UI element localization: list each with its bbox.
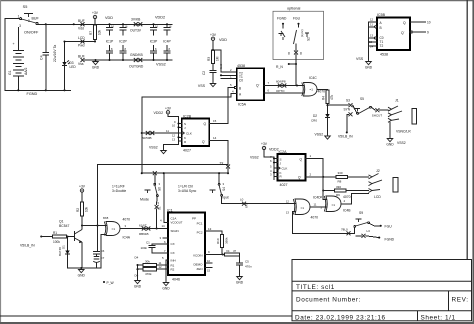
svg-text:14: 14 xyxy=(370,45,374,49)
wire y164 branch xyxy=(98,164,229,166)
svg-text:D1: D1 xyxy=(62,245,66,249)
wire IC4C out to R4 xyxy=(317,88,328,91)
switch S0 Mode xyxy=(154,175,156,183)
terminal P_W xyxy=(103,281,105,283)
IC4B output wire xyxy=(341,203,352,205)
IC2B bus to VDD2 xyxy=(168,114,179,122)
jumper on y173 xyxy=(153,171,157,175)
svg-text:11: 11 xyxy=(314,203,317,207)
supply +3V at R2 xyxy=(80,189,83,192)
svg-text:VSNC/LR: VSNC/LR xyxy=(396,130,411,134)
jumper SHCUT xyxy=(371,107,375,110)
svg-text:SIGIN: SIGIN xyxy=(171,229,179,233)
svg-text:4027: 4027 xyxy=(280,183,288,187)
svg-text:3=U5A Sync: 3=U5A Sync xyxy=(178,189,197,193)
svg-text:8: 8 xyxy=(300,52,302,56)
svg-text:8X8: 8X8 xyxy=(245,202,249,208)
svg-text:470k: 470k xyxy=(145,272,152,276)
svg-text:12: 12 xyxy=(286,200,290,204)
svg-text:13: 13 xyxy=(208,227,212,231)
power bypass IC3P xyxy=(153,24,155,27)
svg-text:GND: GND xyxy=(134,284,142,288)
svg-text:VSS2: VSS2 xyxy=(149,146,158,150)
svg-text:4070: 4070 xyxy=(343,195,351,199)
svg-text:CX: CX xyxy=(171,251,175,255)
svg-text:Sheet: 1/1: Sheet: 1/1 xyxy=(421,314,456,321)
svg-text:X4: X4 xyxy=(226,249,230,253)
svg-text:4070: 4070 xyxy=(123,218,131,222)
diode D1 xyxy=(67,237,69,251)
terminal FGU xyxy=(380,225,382,227)
svg-text:S2: S2 xyxy=(307,37,311,41)
IC2B CLK wire with jumper 50/50B xyxy=(142,132,182,134)
svg-text:S3: S3 xyxy=(346,99,350,103)
gnd arrow bottom-left xyxy=(78,268,84,273)
svg-text:GND: GND xyxy=(78,273,86,277)
wire IC4B out to J2 lower xyxy=(352,194,369,204)
svg-text:IC4C: IC4C xyxy=(309,76,317,80)
terminal V5/LB_IN xyxy=(40,235,42,237)
wire D2 node to SYN jumpers xyxy=(328,104,349,106)
svg-text:8: 8 xyxy=(288,52,290,56)
svg-text:VSS2: VSS2 xyxy=(250,156,259,160)
wire R1 to base xyxy=(66,236,74,238)
svg-text:330: 330 xyxy=(338,171,343,175)
svg-text:VCOOUT: VCOOUT xyxy=(171,220,183,224)
XOR gate IC4B xyxy=(326,196,341,212)
svg-text:4046: 4046 xyxy=(172,278,180,282)
resistor R8 330 xyxy=(336,175,348,178)
svg-text:D6: D6 xyxy=(135,274,139,278)
gnd under D2 xyxy=(327,118,329,135)
svg-text:4027: 4027 xyxy=(183,149,191,153)
svg-text:+3V: +3V xyxy=(92,11,99,15)
wire bottom branch y233 xyxy=(292,232,354,234)
svg-text:GND: GND xyxy=(162,286,170,290)
svg-text:15: 15 xyxy=(207,269,211,273)
svg-text:J2: J2 xyxy=(376,169,380,173)
svg-text:2: 2 xyxy=(28,19,30,23)
IC4B input wires xyxy=(323,199,326,201)
svg-text:14: 14 xyxy=(213,136,217,140)
svg-text:=1: =1 xyxy=(112,227,116,231)
bottom gnd wire xyxy=(68,267,102,269)
svg-text:=1: =1 xyxy=(332,203,336,207)
svg-text:BUF: BUF xyxy=(78,55,85,59)
IC2B bus to gnd xyxy=(164,145,179,150)
svg-text:4070: 4070 xyxy=(318,90,326,94)
svg-text:13: 13 xyxy=(370,34,374,38)
jumper on S4 wire xyxy=(242,202,246,206)
svg-text:B: B xyxy=(239,86,241,90)
svg-text:22u/16V Ta: 22u/16V Ta xyxy=(53,45,57,62)
wire optional box to R_N and IC4C xyxy=(295,55,297,86)
power bypass IC4P xyxy=(166,24,168,27)
svg-text:BC547: BC547 xyxy=(59,224,69,228)
svg-text:L3: L3 xyxy=(367,229,371,233)
svg-text:IC5B: IC5B xyxy=(377,13,386,17)
svg-text:FGND: FGND xyxy=(385,237,395,241)
svg-text:CLK: CLK xyxy=(282,166,288,170)
jumper 2X xyxy=(226,165,230,169)
svg-text:10: 10 xyxy=(207,259,211,263)
IC2A Qbar pin2 wire xyxy=(306,176,337,178)
svg-text:R4: R4 xyxy=(322,96,326,100)
svg-text:REV:: REV: xyxy=(452,297,469,304)
svg-text:CLK: CLK xyxy=(186,131,192,135)
svg-text:LED: LED xyxy=(70,65,77,69)
svg-text:ZEN: ZEN xyxy=(197,267,203,271)
svg-text:Vss: Vss xyxy=(78,62,84,66)
svg-text:Q´: Q´ xyxy=(256,84,260,88)
svg-text:3: 3 xyxy=(19,24,21,28)
IC1 ZEN pin15 stub xyxy=(205,266,212,268)
svg-text:IC2P: IC2P xyxy=(119,40,127,44)
svg-text:VCOIN: VCOIN xyxy=(193,253,203,257)
resistor R2 xyxy=(80,202,83,216)
frame right border xyxy=(466,0,468,260)
svg-text:V5/LB_IN: V5/LB_IN xyxy=(20,244,35,248)
svg-text:RB91B: RB91B xyxy=(139,232,149,236)
svg-text:IC5A: IC5A xyxy=(238,103,247,107)
svg-text:IC4P: IC4P xyxy=(163,40,171,44)
svg-text:VSS: VSS xyxy=(198,84,206,88)
wire R4 to D2 node xyxy=(327,104,329,115)
svg-text:IC4B: IC4B xyxy=(343,208,351,212)
svg-text:12: 12 xyxy=(159,265,163,269)
svg-text:PC1: PC1 xyxy=(197,221,203,225)
title block xyxy=(292,260,472,321)
IC5B pin13 wire xyxy=(375,37,377,39)
IC2B Q pin15 wire xyxy=(209,123,228,125)
capacitor C2 xyxy=(212,64,214,71)
svg-text:11: 11 xyxy=(166,129,169,133)
svg-text:S1: S1 xyxy=(158,206,162,210)
svg-text:+3V: +3V xyxy=(165,106,172,110)
svg-text:12: 12 xyxy=(370,18,374,22)
svg-text:FGND: FGND xyxy=(27,92,38,96)
svg-text:Q´: Q´ xyxy=(401,31,405,35)
svg-text:Date: 23.02.1999 23:21:16: Date: 23.02.1999 23:21:16 xyxy=(295,314,386,321)
long loop wire xyxy=(142,94,231,174)
svg-text:Q: Q xyxy=(403,21,406,25)
wires R3/C2 to IC5A timing pins xyxy=(213,50,237,72)
wire switch output to VDD node xyxy=(38,23,95,25)
svg-text:D2: D2 xyxy=(313,114,317,118)
wire R10 to VCOIN node xyxy=(221,248,223,255)
gnd under C5 xyxy=(237,275,243,280)
supply +3V VDD left xyxy=(93,15,96,18)
svg-text:FGND: FGND xyxy=(277,17,287,21)
supply VDD2 at IC2B xyxy=(166,111,169,114)
svg-text:VSS2: VSS2 xyxy=(397,141,406,145)
IC1 pin4 wire from y173 xyxy=(164,173,168,222)
IC1 INH pin5 to gnd xyxy=(166,260,168,281)
svg-text:100k: 100k xyxy=(53,240,60,244)
jumper SYN upper xyxy=(349,103,353,107)
IC5A pin7 output Q wire xyxy=(264,85,304,87)
svg-text:S4: S4 xyxy=(222,187,226,191)
svg-text:Vdd: Vdd xyxy=(78,27,84,31)
svg-text:D4: D4 xyxy=(135,256,139,260)
resistor R3 xyxy=(211,50,214,64)
svg-text:R8: R8 xyxy=(338,180,342,184)
svg-text:9: 9 xyxy=(427,31,429,35)
IC5B pin15 wire xyxy=(369,41,378,43)
wire switch to left rail xyxy=(5,19,20,91)
svg-text:15: 15 xyxy=(213,119,217,123)
svg-text:BUF: BUF xyxy=(32,17,40,21)
svg-text:BUF: BUF xyxy=(78,19,85,23)
svg-text:8X8: 8X8 xyxy=(103,216,109,220)
svg-text:VDD2: VDD2 xyxy=(154,111,164,115)
svg-text:3V/KB: 3V/KB xyxy=(131,18,141,22)
capacitor C6 xyxy=(97,226,99,252)
svg-text:TITLE: scl1: TITLE: scl1 xyxy=(296,284,335,291)
svg-text:S9: S9 xyxy=(359,211,363,215)
IC5B pin12 wire xyxy=(369,21,378,23)
svg-text:47k: 47k xyxy=(330,94,334,100)
resistor R4 xyxy=(326,90,329,104)
power bypass IC1P xyxy=(109,24,111,27)
svg-text:R2: R2 xyxy=(171,267,175,271)
IC5B left bus to gnd xyxy=(368,22,370,60)
switch S2 in optional box xyxy=(282,24,284,28)
wire Pwd net xyxy=(65,41,96,43)
diode D2 xyxy=(325,114,329,118)
svg-text:+3V: +3V xyxy=(210,33,217,37)
svg-text:10k: 10k xyxy=(85,206,89,212)
svg-text:CR0: CR0 xyxy=(311,119,317,123)
svg-text:AA/2: AA/2 xyxy=(24,68,28,75)
svg-text:R1: R1 xyxy=(53,231,57,235)
svg-text:VSS: VSS xyxy=(356,57,364,61)
FGND rail xyxy=(5,89,71,91)
resistor R9 330 xyxy=(323,190,334,192)
svg-text:P_W: P_W xyxy=(107,281,115,285)
IC2A left bus xyxy=(273,157,275,180)
svg-text:FGU: FGU xyxy=(293,17,301,21)
IC2B left bus xyxy=(178,122,180,145)
svg-text:OUTGND: OUTGND xyxy=(129,65,144,69)
svg-text:=1: =1 xyxy=(310,88,314,92)
svg-text:S5: S5 xyxy=(23,5,28,9)
svg-text:J1: J1 xyxy=(395,99,399,103)
IC5A pin A wire from loop xyxy=(231,93,236,95)
svg-text:Pwd: Pwd xyxy=(78,44,85,48)
svg-text:R_N: R_N xyxy=(276,65,283,69)
svg-text:Q´: Q´ xyxy=(202,140,206,144)
svg-text:VSS2: VSS2 xyxy=(156,63,166,67)
svg-text:FGU: FGU xyxy=(385,225,393,229)
svg-text:VSS2: VSS2 xyxy=(315,133,324,137)
svg-text:4070: 4070 xyxy=(311,216,319,220)
svg-text:IC1P: IC1P xyxy=(106,40,114,44)
vertical loop wire x97 xyxy=(97,165,99,226)
svg-text:B: B xyxy=(380,26,382,30)
svg-text:10: 10 xyxy=(172,124,176,128)
wire R2 to collector node xyxy=(81,216,83,229)
XOR gate IC4D xyxy=(295,199,310,215)
VDD rail xyxy=(95,23,172,25)
svg-text:1M: 1M xyxy=(216,56,220,61)
svg-text:4?: 4? xyxy=(233,249,237,253)
svg-text:470n: 470n xyxy=(245,265,252,269)
supply +3V VDD mid xyxy=(211,37,214,40)
svg-text:GND/KB: GND/KB xyxy=(130,53,143,57)
frame bottom border xyxy=(0,315,292,317)
svg-text:C0: C0 xyxy=(239,79,243,83)
terminal FGND xyxy=(378,237,380,239)
svg-text:10k: 10k xyxy=(98,29,102,35)
supply VDD2 at IC2A xyxy=(262,146,265,149)
resistor R10 xyxy=(220,234,223,247)
svg-text:Q1: Q1 xyxy=(59,220,64,224)
svg-text:60/6P8: 60/6P8 xyxy=(276,80,286,84)
svg-text:T2: T2 xyxy=(380,44,384,48)
svg-text:15: 15 xyxy=(369,40,373,44)
svg-text:1: 1 xyxy=(18,15,20,19)
svg-text:G1: G1 xyxy=(8,70,12,75)
svg-text:PC2: PC2 xyxy=(197,230,203,234)
IC4D output wire xyxy=(310,206,326,208)
svg-text:3=Double: 3=Double xyxy=(112,189,126,193)
jumper S1 xyxy=(156,197,158,205)
R5/R6 bus to gnd xyxy=(137,265,139,269)
IC1 VCOIN pin9 wire xyxy=(205,254,225,256)
svg-text:390k: 390k xyxy=(225,237,229,244)
IC4A output wire to IC1 pin14 xyxy=(121,228,168,230)
svg-text:78L0: 78L0 xyxy=(341,228,348,232)
svg-text:13: 13 xyxy=(172,137,176,141)
IC4A lower input wire xyxy=(101,234,106,236)
svg-text:14: 14 xyxy=(162,224,166,228)
svg-text:C4: C4 xyxy=(40,55,44,60)
resistor R7 contrast xyxy=(93,25,96,40)
IC2B Qbar pin14 wire xyxy=(209,141,228,165)
svg-text:GND: GND xyxy=(365,65,373,69)
optional box xyxy=(273,11,324,59)
svg-text:R3: R3 xyxy=(207,57,211,61)
svg-text:IC3P: IC3P xyxy=(150,40,158,44)
svg-text:R10: R10 xyxy=(216,238,220,244)
svg-text:LCD: LCD xyxy=(374,195,381,199)
capacitor C1 100n at CX pins xyxy=(152,244,168,245)
svg-text:INH: INH xyxy=(171,258,176,262)
svg-text:30k: 30k xyxy=(145,259,150,263)
svg-text:11: 11 xyxy=(370,23,373,27)
svg-text:13: 13 xyxy=(286,210,290,214)
IC5B Q output pin10 xyxy=(410,21,426,23)
svg-text:10: 10 xyxy=(427,21,431,25)
IC1 DEMO pin10 stub xyxy=(205,262,212,264)
svg-text:PP: PP xyxy=(192,216,196,220)
svg-text:C1: C1 xyxy=(146,241,150,245)
svg-text:GND: GND xyxy=(236,280,244,284)
power bypass IC2P xyxy=(122,24,124,27)
svg-text:optional: optional xyxy=(287,7,300,11)
LED D3 xyxy=(64,42,66,62)
svg-text:+: + xyxy=(13,42,15,46)
svg-text:SYN: SYN xyxy=(344,108,351,112)
svg-text:4538: 4538 xyxy=(380,53,388,57)
emitter wire xyxy=(81,243,83,269)
svg-text:S5: S5 xyxy=(360,97,364,101)
resistor R5 30k xyxy=(138,264,144,266)
wire J1 sleeve to gnd xyxy=(389,122,391,137)
VSS rail xyxy=(96,59,172,61)
svg-text:SHCUT: SHCUT xyxy=(372,113,383,117)
capacitor C4 xyxy=(45,24,47,52)
IC5B pin11 wire with bubble xyxy=(375,26,377,28)
svg-text:50/50B: 50/50B xyxy=(142,136,152,140)
svg-text:Mode: Mode xyxy=(140,198,149,202)
svg-text:BAT48: BAT48 xyxy=(58,247,62,256)
svg-text:S0: S0 xyxy=(157,187,161,191)
svg-text:330: 330 xyxy=(336,185,341,189)
resistor R6 470k xyxy=(138,268,144,270)
svg-text:GND: GND xyxy=(92,65,100,69)
wire horizontal y173 xyxy=(142,172,228,174)
svg-text:ON/OFF: ON/OFF xyxy=(24,31,39,35)
svg-text:(sync): (sync) xyxy=(300,29,304,37)
svg-text:DEMO: DEMO xyxy=(194,262,204,266)
IC2A Q pin1 wire xyxy=(306,159,324,200)
switch S4 Input xyxy=(218,173,220,183)
svg-text:L0: L0 xyxy=(240,198,244,202)
wire S4 to gate IC4D input xyxy=(222,196,295,204)
svg-text:CX: CX xyxy=(171,242,175,246)
svg-text:VDD2: VDD2 xyxy=(155,16,165,20)
svg-text:+3V: +3V xyxy=(261,142,268,146)
svg-text:Document Number:: Document Number: xyxy=(296,297,361,304)
terminal R_N xyxy=(288,63,290,65)
svg-text:=1: =1 xyxy=(301,206,305,210)
svg-text:R7: R7 xyxy=(89,31,93,35)
IC5A pin6 wire xyxy=(264,92,304,94)
svg-text:R2: R2 xyxy=(76,208,80,212)
resistor R1 100k xyxy=(41,236,52,238)
svg-text:IC4A: IC4A xyxy=(123,236,131,240)
svg-text:VDD: VDD xyxy=(105,16,113,20)
svg-text:OPTO: OPTO xyxy=(276,89,285,93)
wire SYN lower to V5/LB_IN terminal xyxy=(347,114,349,132)
XOR gate IC4C 4070 xyxy=(304,83,318,97)
svg-text:OUT3V: OUT3V xyxy=(130,29,142,33)
svg-text:Q´: Q´ xyxy=(298,175,302,179)
svg-text:VDD2: VDD2 xyxy=(269,148,279,152)
IC5B pin14 wire xyxy=(369,45,378,47)
svg-text:C5: C5 xyxy=(245,260,249,264)
IC4D input 13 wire from below xyxy=(292,211,295,213)
capacitor C7 polarized xyxy=(93,257,100,263)
IC1 pin3 stub xyxy=(163,237,168,239)
IC2A bus to VDD2 xyxy=(264,150,274,157)
gnd arrow left VSS xyxy=(93,60,99,65)
IC5A pin B wire xyxy=(234,86,236,88)
svg-text:Input: Input xyxy=(221,196,229,200)
svg-text:VDD: VDD xyxy=(219,38,227,42)
svg-text:C2: C2 xyxy=(202,71,206,75)
IC1 PC2 pin13 wire xyxy=(205,231,222,234)
IC5B Qbar output pin9 xyxy=(410,31,412,33)
jumper 78L0 xyxy=(347,231,351,235)
svg-text:100n: 100n xyxy=(141,246,148,250)
svg-text:V5/LB_IN: V5/LB_IN xyxy=(338,135,353,139)
capacitor C5 470n xyxy=(237,263,243,265)
frame window edges xyxy=(0,0,474,2)
wire R11 to C5 xyxy=(238,255,240,263)
